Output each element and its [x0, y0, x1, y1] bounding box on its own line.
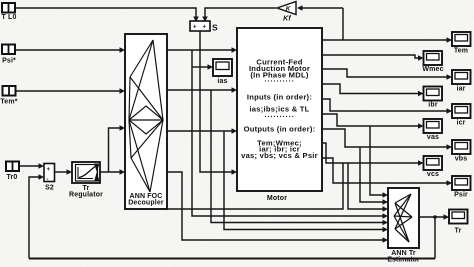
svg-text:icr: icr [456, 120, 465, 127]
svg-text:Decoupler: Decoupler [128, 200, 164, 207]
svg-text:Estimator: Estimator [387, 257, 420, 264]
svg-text:vcs: vcs [427, 171, 439, 178]
svg-text:Regulator: Regulator [69, 192, 103, 199]
svg-text:Tem*: Tem* [0, 99, 17, 106]
svg-text:vas; vbs; vcs & Psir: vas; vbs; vcs & Psir [241, 151, 318, 160]
svg-text:ibr: ibr [428, 102, 438, 109]
svg-text:Outputs (in order):: Outputs (in order): [244, 125, 316, 134]
svg-text:+: + [193, 25, 197, 31]
svg-text:Psi*: Psi* [2, 58, 16, 65]
svg-text:vbs: vbs [455, 156, 468, 163]
svg-text:Wmec: Wmec [422, 66, 443, 73]
svg-text:··········: ·········· [264, 112, 294, 121]
svg-text:ias: ias [217, 78, 227, 85]
svg-text:Motor: Motor [267, 195, 287, 202]
svg-text:Kf: Kf [283, 16, 291, 23]
svg-text:+: + [203, 25, 207, 31]
svg-text:Inputs (in order):: Inputs (in order): [247, 93, 312, 102]
svg-text:iar: iar [456, 86, 465, 93]
svg-text:vas: vas [427, 134, 439, 141]
svg-text:Tem: Tem [454, 48, 468, 55]
svg-text:-: - [47, 177, 49, 183]
svg-text:S: S [212, 23, 218, 33]
svg-text:Psir: Psir [454, 192, 468, 199]
svg-text:+: + [47, 167, 51, 173]
svg-text:S2: S2 [45, 185, 54, 192]
svg-text:Tr: Tr [455, 228, 462, 235]
svg-text:K: K [286, 6, 291, 13]
svg-text:··········: ·········· [264, 77, 294, 86]
svg-text:T L0: T L0 [2, 14, 17, 21]
svg-text:Tr0: Tr0 [7, 174, 18, 181]
